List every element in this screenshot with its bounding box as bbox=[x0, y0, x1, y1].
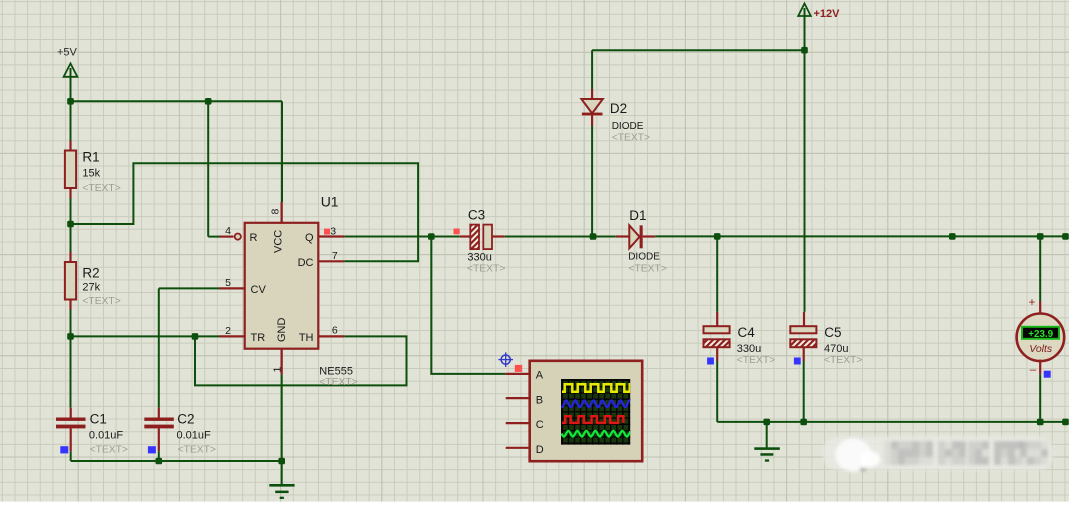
waveform D green bbox=[562, 431, 631, 437]
svg-text:<TEXT>: <TEXT> bbox=[90, 445, 128, 456]
svg-text:<TEXT>: <TEXT> bbox=[82, 296, 120, 307]
svg-text:470u: 470u bbox=[824, 343, 848, 355]
wire output net bbox=[655, 235, 1065, 237]
svg-text:<TEXT>: <TEXT> bbox=[824, 355, 862, 366]
ground symbol under U1 bbox=[269, 375, 294, 499]
oscilloscope body bbox=[530, 361, 643, 461]
scope channel labels bbox=[536, 369, 544, 456]
svg-text:8: 8 bbox=[269, 209, 281, 215]
waveform B blue bbox=[562, 401, 631, 408]
marker scope terminal bbox=[515, 365, 522, 372]
svg-text:GND: GND bbox=[276, 318, 288, 343]
svg-text:R2: R2 bbox=[82, 266, 99, 281]
svg-text:R1: R1 bbox=[82, 150, 99, 165]
pin 5 CV lead bbox=[220, 287, 245, 289]
svg-text:<TEXT>: <TEXT> bbox=[737, 355, 775, 366]
svg-text:DIODE: DIODE bbox=[612, 121, 644, 132]
svg-text:C3: C3 bbox=[468, 208, 485, 223]
junction voltmeter minus bbox=[1037, 419, 1044, 426]
scope input C lead bbox=[506, 422, 530, 424]
svg-text:+12V: +12V bbox=[814, 8, 841, 20]
svg-text:A: A bbox=[536, 369, 544, 381]
junction C5/ground net bbox=[800, 419, 807, 426]
pin names inside U1 bbox=[250, 230, 314, 344]
capacitor C2 bbox=[144, 288, 219, 461]
watermark bbox=[823, 437, 1053, 472]
svg-text:2: 2 bbox=[225, 325, 231, 337]
wire ground net bottom-left bbox=[71, 460, 282, 462]
svg-text:D2: D2 bbox=[610, 101, 627, 116]
junction TR/TH loop bbox=[192, 333, 199, 340]
svg-text:+23.9: +23.9 bbox=[1028, 329, 1053, 340]
svg-text:330u: 330u bbox=[737, 343, 761, 355]
pin 8 VCC lead bbox=[281, 202, 283, 223]
junction voltmeter branch bbox=[1037, 233, 1044, 240]
svg-text:NE555: NE555 bbox=[319, 365, 353, 377]
junction Q net / scope branch bbox=[428, 233, 435, 240]
svg-text:–: – bbox=[1030, 364, 1037, 376]
svg-text:C5: C5 bbox=[824, 325, 841, 340]
wire TR net bbox=[71, 335, 220, 337]
wire VCC drop to pin 8 bbox=[281, 101, 283, 202]
scope input D lead bbox=[506, 447, 530, 449]
svg-text:15k: 15k bbox=[82, 168, 100, 180]
diode D1 bbox=[616, 225, 655, 248]
wire TH loop bbox=[195, 336, 407, 385]
svg-text:<TEXT>: <TEXT> bbox=[82, 183, 120, 194]
junction ground symbol bbox=[763, 419, 770, 426]
svg-text:7: 7 bbox=[332, 250, 338, 262]
svg-text:D1: D1 bbox=[629, 208, 646, 223]
svg-text:27k: 27k bbox=[82, 282, 100, 294]
wire pin 4 net bbox=[207, 101, 209, 236]
svg-text:Volts: Volts bbox=[1029, 343, 1053, 355]
junction output net bbox=[949, 233, 956, 240]
pin 4 R lead with bubble bbox=[220, 236, 234, 238]
pin 3 Q lead bbox=[318, 235, 344, 237]
svg-text:4: 4 bbox=[225, 225, 231, 237]
svg-text:+: + bbox=[1029, 297, 1036, 309]
resistor R1 bbox=[65, 101, 76, 224]
waveform A yellow bbox=[562, 384, 637, 392]
svg-text:DC: DC bbox=[298, 257, 314, 269]
wire scope input A bbox=[506, 373, 530, 375]
junction +5V/R1 bbox=[67, 98, 74, 105]
resistor R2 bbox=[65, 224, 76, 336]
marker pin 3 bbox=[324, 229, 330, 235]
wire feedback loop to pin 7 bbox=[71, 163, 419, 261]
svg-text:0.01uF: 0.01uF bbox=[177, 429, 212, 441]
marker C5 terminal bbox=[794, 358, 801, 365]
marker C1 terminal bbox=[60, 446, 68, 453]
diode D2 bbox=[581, 50, 602, 236]
svg-text:CV: CV bbox=[251, 284, 267, 296]
pin 6 TH lead bbox=[318, 335, 344, 337]
svg-text:+5V: +5V bbox=[57, 47, 78, 59]
svg-text:<TEXT>: <TEXT> bbox=[612, 133, 650, 144]
scope screen bbox=[561, 379, 630, 445]
junction R2/TR bbox=[67, 333, 74, 340]
svg-text:<TEXT>: <TEXT> bbox=[629, 263, 667, 274]
wire scope A branch bbox=[431, 237, 505, 374]
power +5V symbol bbox=[57, 47, 78, 102]
junction +12V rail bbox=[801, 47, 808, 54]
junction GND pin net bbox=[278, 458, 285, 465]
svg-text:C4: C4 bbox=[738, 325, 756, 340]
junction R1/R2/feedback bbox=[67, 221, 74, 228]
marker voltmeter terminal bbox=[1044, 371, 1051, 378]
svg-text:B: B bbox=[536, 394, 543, 406]
wire Q output net bbox=[344, 236, 460, 238]
power +12V symbol bbox=[798, 4, 840, 21]
junction C4 branch bbox=[714, 233, 721, 240]
junction +5V/pin4 branch bbox=[205, 98, 212, 105]
node ground net end bbox=[1062, 419, 1069, 426]
svg-text:3: 3 bbox=[330, 226, 336, 238]
pin 7 DC lead bbox=[318, 260, 344, 262]
svg-text:C: C bbox=[536, 419, 544, 431]
svg-text:330u: 330u bbox=[467, 252, 491, 264]
capacitor C4 330u bbox=[704, 236, 730, 422]
op-amp U1 NE555 body bbox=[245, 223, 319, 349]
wire +5V rail bbox=[71, 100, 283, 102]
wire ground net right bbox=[717, 421, 1065, 423]
svg-text:D: D bbox=[536, 444, 544, 456]
wire D2 to +12V rail bbox=[592, 49, 804, 51]
scope input B lead bbox=[506, 397, 530, 399]
marker C2 terminal bbox=[148, 446, 156, 453]
svg-text:R: R bbox=[250, 232, 258, 244]
svg-text:<TEXT>: <TEXT> bbox=[319, 377, 357, 388]
svg-text:0.01uF: 0.01uF bbox=[89, 429, 124, 441]
svg-text:C1: C1 bbox=[90, 412, 107, 427]
wire +12V vertical to C5 bbox=[804, 16, 806, 312]
marker C4 terminal bbox=[707, 358, 714, 365]
svg-text:DIODE: DIODE bbox=[628, 251, 660, 262]
svg-text:<TEXT>: <TEXT> bbox=[467, 264, 505, 275]
svg-text:1: 1 bbox=[272, 367, 284, 373]
svg-text:C2: C2 bbox=[177, 412, 194, 427]
ground symbol right bbox=[754, 422, 780, 462]
node scope origin marker bbox=[498, 352, 513, 367]
junction D2 branch bbox=[590, 233, 597, 240]
svg-text:6: 6 bbox=[332, 325, 338, 337]
wire C3 to D1 bbox=[505, 236, 616, 238]
junction C2/ground net bbox=[156, 458, 163, 465]
pin 2 TR lead bbox=[220, 335, 245, 337]
waveform C red bbox=[562, 416, 623, 423]
voltmeter probe bbox=[1017, 236, 1065, 422]
marker C3 terminal bbox=[454, 229, 460, 235]
svg-text:Q: Q bbox=[305, 232, 314, 244]
capacitor C3 330u bbox=[460, 225, 505, 250]
svg-text:TR: TR bbox=[251, 332, 266, 344]
pin 1 GND lead bbox=[281, 349, 283, 375]
capacitor C1 bbox=[56, 336, 86, 461]
svg-text:TH: TH bbox=[299, 332, 314, 344]
capacitor C5 470u bbox=[790, 312, 816, 422]
svg-text:5: 5 bbox=[225, 277, 231, 289]
svg-text:VCC: VCC bbox=[273, 230, 285, 253]
frame bottom strip bbox=[0, 502, 1069, 505]
svg-text:U1: U1 bbox=[321, 193, 339, 209]
node output net end bbox=[1062, 233, 1069, 240]
svg-text:<TEXT>: <TEXT> bbox=[178, 445, 216, 456]
